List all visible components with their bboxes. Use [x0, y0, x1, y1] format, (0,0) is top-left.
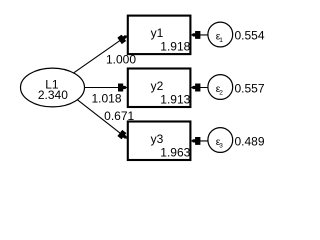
wire path L1 to y1 — [60, 36, 127, 83]
error e3 (circle) — [208, 128, 233, 153]
wire e3 to y3 — [191, 140, 220, 142]
svg-text:2.340: 2.340 — [38, 88, 68, 102]
svg-text:0.489: 0.489 — [235, 135, 265, 149]
observed y1 (rect) — [128, 16, 191, 55]
latent variable L1 (ellipse) — [21, 68, 85, 107]
observed y3 (rect) — [128, 122, 191, 161]
svg-text:1.000: 1.000 — [106, 52, 136, 66]
svg-text:y1: y1 — [151, 26, 164, 40]
svg-text:0.554: 0.554 — [235, 29, 265, 43]
wire e2 to y2 — [191, 87, 220, 89]
svg-text:1.918: 1.918 — [160, 39, 190, 53]
svg-text:1.018: 1.018 — [91, 91, 121, 105]
svg-text:0.557: 0.557 — [235, 82, 265, 96]
svg-text:1.963: 1.963 — [160, 145, 190, 159]
wire path L1 to y2 — [53, 87, 127, 89]
observed y2 (rect) — [128, 69, 191, 108]
error e2 (circle) — [208, 75, 233, 100]
wire e1 to y1 — [191, 34, 220, 36]
svg-text:y3: y3 — [151, 132, 164, 146]
svg-text:0.671: 0.671 — [104, 109, 134, 123]
wire path L1 to y3 — [64, 89, 127, 138]
svg-text:y2: y2 — [151, 79, 164, 93]
svg-text:1.913: 1.913 — [160, 92, 190, 106]
error e1 (circle) — [208, 22, 233, 47]
